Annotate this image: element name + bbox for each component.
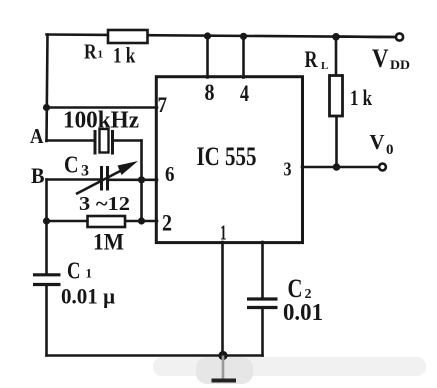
wire pin 3 output [302,166,379,169]
wire node B / pin 6 [47,178,100,181]
junction dot 1M left [43,217,50,224]
svg-text:B: B [31,163,45,188]
wire left rail lower [45,180,48,274]
svg-text:L: L [321,60,328,72]
junction dot pin8 [204,32,211,39]
svg-text:C: C [64,153,79,179]
svg-text:8: 8 [205,80,215,105]
wire 1M / pin 2 [47,220,158,223]
svg-text:1: 1 [98,49,104,61]
svg-text:1 k: 1 k [350,85,373,110]
svg-text:C: C [67,259,81,285]
svg-text:1M: 1M [93,230,124,255]
svg-text:IC 555: IC 555 [197,142,257,171]
crystal X1 100kHz [95,129,113,155]
svg-text:7: 7 [158,92,168,117]
svg-text:2: 2 [162,211,172,236]
wire vertical crystal/pin6/pin2 [140,141,143,222]
svg-text:R: R [84,40,97,64]
wire RL bottom to pin3 node [335,116,338,167]
svg-text:A: A [30,124,44,148]
wire C2 top stub [261,242,264,298]
svg-text:3: 3 [284,159,292,181]
svg-text:3 ~12: 3 ~12 [79,193,130,215]
op IC 555 U1 box [156,77,302,243]
wire bottom rail [47,354,263,357]
wire pin 1 stub [221,242,224,356]
junction dot RL top [332,33,340,41]
wire VDD terminal lead [336,35,395,38]
wire RL top [335,37,338,77]
junction dot pin2 [138,217,145,224]
capacitor C2 [247,299,278,308]
resistor 1M [88,216,126,227]
resistor RL [330,76,343,117]
wire top rail VDD [47,35,397,38]
svg-text:0: 0 [386,142,394,158]
terminal VDD [396,33,403,40]
junction dot ground [218,351,227,360]
wire C2 bottom stub [261,310,264,356]
terminal V0 [379,164,386,171]
wire pin 8 stub [206,36,209,78]
svg-text:1: 1 [220,221,227,245]
svg-text:R: R [305,47,318,72]
wire pin 4 stub [242,36,245,78]
ground [222,356,225,380]
svg-text:3: 3 [81,163,89,180]
wire node A to crystal [47,139,95,142]
junction dot pin7 branch [43,104,50,111]
wire crystal right to vertical [113,139,142,142]
svg-text:1: 1 [86,266,93,281]
svg-text:0.01 μ: 0.01 μ [61,284,115,309]
svg-text:100kHz: 100kHz [63,108,139,134]
capacitor C1 [33,275,61,285]
junction dot pin6 [138,176,145,183]
svg-text:V: V [370,130,385,154]
junction dot pin4 [240,33,247,40]
arrow of variable capacitor C3 [76,169,125,195]
svg-text:4: 4 [240,81,249,106]
wire pin 7 [47,106,158,109]
junction dot pin3/RL [333,163,341,171]
capacitor C3 (variable) [102,166,108,191]
wire left rail upper [47,35,48,142]
svg-text:DD: DD [390,57,410,72]
svg-text:6: 6 [165,162,175,186]
svg-text:1 k: 1 k [113,43,136,68]
svg-text:0.01: 0.01 [283,300,323,326]
resistor R1 [108,30,148,43]
svg-text:C: C [288,274,303,303]
watermark band [153,357,426,376]
svg-text:V: V [372,44,389,73]
